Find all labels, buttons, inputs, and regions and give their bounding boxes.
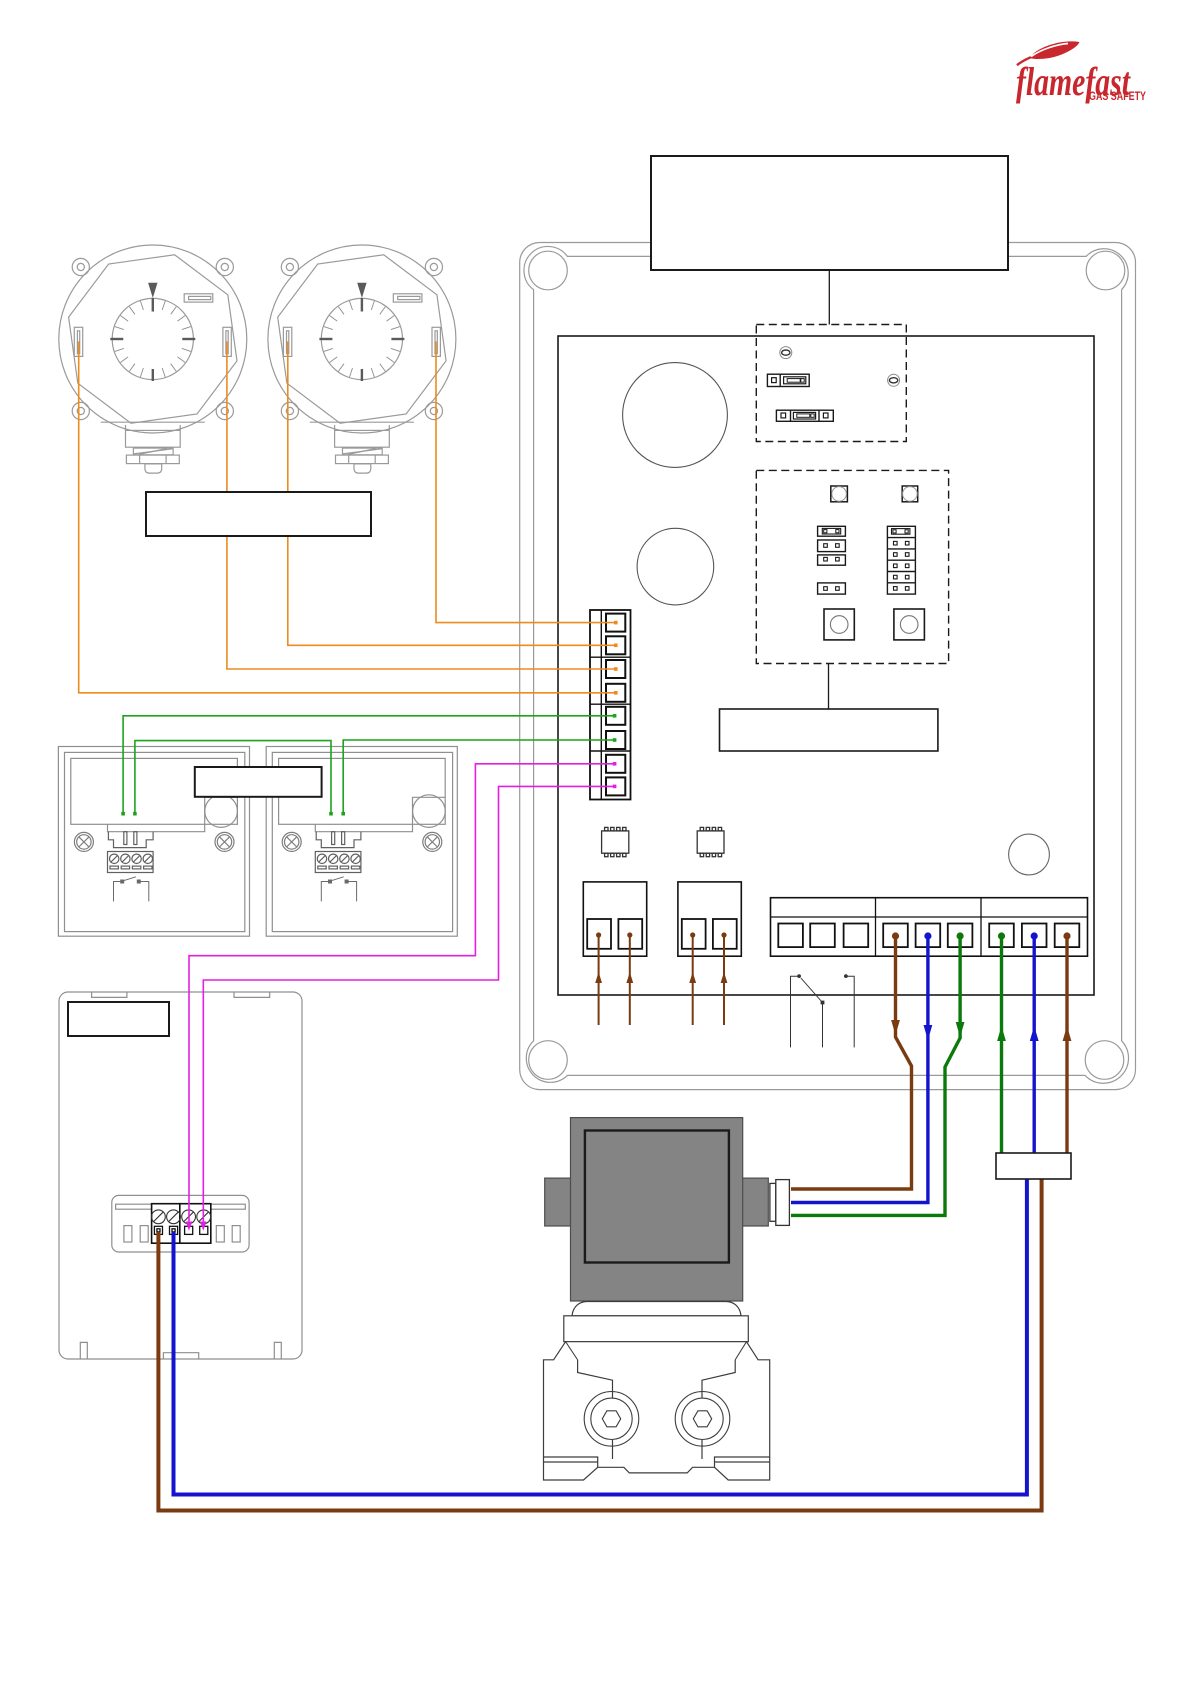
label box jumper settings (720, 664, 938, 752)
wire blue TB4 to valve coil (791, 932, 932, 1202)
terminal strip TB4 (3 groups) (771, 898, 1088, 957)
wire green TB4 to junction box (997, 932, 1006, 1155)
wire magenta TB1-8 to CO2 monitor (200, 785, 616, 1231)
wire orange PS1 right to TB1-3 (227, 341, 618, 670)
LED D2 (902, 486, 918, 502)
enclosure corner screw top-left (529, 251, 568, 290)
button SW2 (894, 609, 925, 640)
PCB board outline (558, 336, 1094, 995)
terminal block TB1 (8-way field wiring) (590, 610, 631, 800)
screw F1 (780, 347, 792, 359)
LED D1 (831, 486, 848, 502)
enclosure (gas proving panel) (520, 243, 1136, 1090)
PCB hole small (637, 528, 714, 605)
terminal block TB3 (2-way) (678, 882, 741, 956)
emergency stop ES2 (266, 747, 457, 937)
terminal block TB2 (2-way) (583, 882, 646, 956)
valve port right (675, 1392, 730, 1447)
pressure switch PS1 (59, 245, 247, 473)
fuse holder FS1 (767, 374, 809, 386)
wire green TB1-5 to ES1 (121, 714, 616, 816)
wire blue TB4 to junction box (1030, 932, 1039, 1155)
PCB hole large (623, 363, 728, 468)
CO2 monitor terminal block (152, 1204, 211, 1244)
jumper J1 (with cap) (818, 526, 846, 536)
wire magenta TB1-7 to CO2 monitor (186, 762, 617, 1231)
valve port left (584, 1392, 639, 1447)
jumper J2 (818, 540, 846, 552)
screw F2 (888, 374, 900, 386)
label box CO2 monitor (68, 1002, 169, 1036)
jumper J3 (818, 555, 846, 565)
wire blue CO2 monitor to junction box (mains) (174, 1179, 1027, 1495)
wire green TB4 to valve coil (791, 932, 965, 1215)
wire brown CO2 monitor to junction box (mains) (158, 1179, 1041, 1511)
IC U2 (697, 827, 724, 856)
enclosure corner screw top-right (1086, 251, 1125, 290)
solenoid valve coil (545, 1118, 769, 1301)
label box panel title (651, 156, 1008, 325)
wire orange PS2 left to TB1-2 (288, 341, 618, 647)
jumper header J5 (6 way) (887, 526, 915, 594)
PCB hole bottom-right (1009, 834, 1050, 875)
pressure switch PS2 (268, 245, 456, 473)
solenoid valve body (544, 1302, 770, 1481)
svg-text:GAS SAFETY: GAS SAFETY (1089, 91, 1146, 103)
button SW1 (824, 609, 854, 640)
jumper J4 (818, 583, 846, 594)
wire brown stub TB3-1 (689, 932, 696, 1025)
fuse holder FS2 (776, 410, 833, 421)
emergency stop ES1 (58, 747, 249, 937)
wire green ES1 to ES2 link (133, 741, 333, 816)
enclosure corner screw bottom-right (1085, 1041, 1124, 1080)
relay contact symbol (791, 974, 855, 1047)
wire brown stub TB2-2 (626, 932, 633, 1025)
enclosure corner screw bottom-left (529, 1041, 568, 1080)
CO2 monitor unit (59, 992, 302, 1359)
IC U1 (602, 827, 629, 856)
valve cable connector (770, 1180, 789, 1226)
wire brown TB4 to junction box (1063, 932, 1072, 1155)
wire brown stub TB3-2 (721, 932, 728, 1025)
wire orange PS1 left to TB1-4 (79, 341, 618, 694)
logo flamefast (1016, 41, 1146, 104)
jumper area dashed box (756, 470, 948, 663)
fuse area dashed box (756, 325, 906, 442)
junction box (996, 1153, 1071, 1179)
wire brown stub TB2-1 (595, 932, 602, 1025)
wire brown TB4 to valve coil (791, 932, 912, 1189)
label box emergency stops (195, 767, 322, 797)
wire orange PS2 right to TB1-1 (436, 341, 618, 624)
label box pressure switches (146, 492, 371, 536)
wire green ES2 to TB1-6 (341, 738, 616, 815)
